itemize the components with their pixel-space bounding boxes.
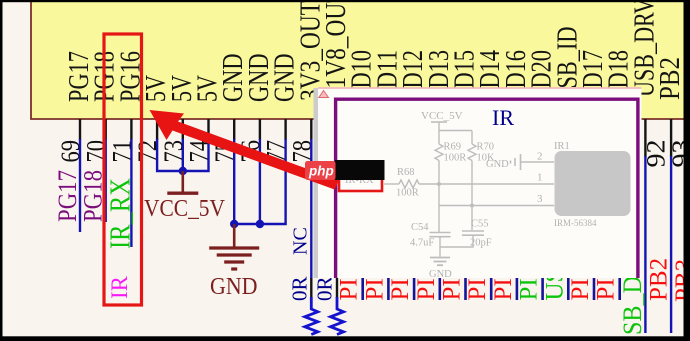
- svg-text:4.7uF: 4.7uF: [410, 238, 434, 249]
- wire net PB3: [670, 156, 672, 333]
- php watermark badge: [305, 161, 336, 180]
- svg-text:IR1: IR1: [554, 141, 570, 152]
- svg-text:1: 1: [537, 172, 543, 184]
- svg-text:R68: R68: [397, 167, 415, 178]
- svg-text:PB2: PB2: [654, 57, 686, 100]
- junction dot 5V: [179, 167, 187, 175]
- svg-text:2: 2: [537, 151, 543, 163]
- wire stub bottom col 15: [464, 200, 467, 300]
- connector block P1 (yellow body): [31, 0, 684, 119]
- resistor zigzag right: [331, 297, 344, 335]
- wire stub bottom col 11: [361, 200, 364, 300]
- svg-text:3: 3: [537, 193, 543, 205]
- svg-text:C54: C54: [411, 222, 429, 233]
- inset capacitor C55: [462, 230, 484, 232]
- wire stubs (black) pins 69-78: [79, 119, 81, 140]
- wire net PG18: [104, 139, 106, 222]
- inset wire VCC branch: [439, 131, 472, 145]
- wire stub bottom col 21: [618, 200, 621, 300]
- svg-text:70: 70: [82, 140, 111, 163]
- black censor box: [335, 160, 385, 180]
- svg-text:72: 72: [133, 140, 162, 163]
- svg-text:PB2: PB2: [645, 258, 672, 301]
- wire 5V bus joining pins 72,73,74: [157, 139, 208, 171]
- red highlight box PG16/IR column: [104, 34, 142, 305]
- wire stub bottom col 13: [413, 200, 416, 300]
- inset resistor R69: [435, 144, 443, 161]
- wire GND bus joining pins 75,76,77: [234, 139, 285, 224]
- wire net PG17: [79, 139, 81, 232]
- svg-text:C55: C55: [471, 219, 489, 230]
- svg-text:GND: GND: [210, 274, 258, 300]
- red highlight box on inset (IR-RX): [339, 177, 382, 192]
- corner triangle marker: [319, 91, 329, 98]
- inset cap bottoms join + GND: [440, 235, 473, 256]
- svg-text:R69: R69: [444, 142, 462, 153]
- svg-text:IR: IR: [492, 105, 514, 130]
- wire stub bottom col 12: [387, 200, 390, 300]
- wire stub bottom col 16: [490, 200, 493, 300]
- wire stub bottom col 14: [438, 200, 441, 300]
- svg-text:69: 69: [56, 140, 85, 163]
- junction dot GND 1: [230, 220, 238, 228]
- inset verticals below resistors: [438, 161, 440, 233]
- inset purple border: [336, 99, 638, 278]
- svg-text:GND: GND: [429, 269, 452, 280]
- svg-text:IR: IR: [107, 275, 132, 299]
- junction dot GND 2: [256, 220, 264, 228]
- inset screenshot card: [314, 88, 319, 278]
- inset resistor R68 + pin1 net: [384, 183, 399, 185]
- inset IC body IR1: [555, 151, 631, 216]
- inset pin3 net: [439, 205, 554, 207]
- wire stub bottom col 19: [567, 200, 570, 300]
- svg-text:NC: NC: [289, 227, 311, 255]
- svg-text:SB_D: SB_D: [618, 276, 647, 335]
- svg-text:GND: GND: [486, 159, 509, 170]
- svg-text:PG17: PG17: [53, 170, 82, 222]
- wire stubs (black) pins 92,93: [644, 119, 646, 157]
- wire stub bottom col 17: [516, 200, 519, 300]
- resistor zigzag left: [305, 297, 318, 335]
- svg-text:0R: 0R: [313, 276, 337, 301]
- svg-text:IRM-56384: IRM-56384: [554, 218, 597, 228]
- inset junction dots: [437, 182, 441, 186]
- resistor R? 0R (left, NC) pin segment: [310, 278, 312, 298]
- wire net IR_RX: [130, 139, 132, 247]
- svg-text:71: 71: [107, 140, 136, 163]
- wire stub bottom col 18: [541, 200, 544, 300]
- svg-text:R70: R70: [477, 142, 495, 153]
- svg-text:php: php: [308, 164, 334, 179]
- wire net PB2: [644, 156, 646, 333]
- svg-text:100R: 100R: [396, 188, 419, 199]
- svg-text:IR_RX: IR_RX: [104, 178, 136, 249]
- inset resistor R70: [468, 144, 476, 161]
- svg-text:0R: 0R: [287, 276, 311, 301]
- svg-text:VCC_5V: VCC_5V: [421, 110, 463, 122]
- wire 3V3_OUT net (pin 78) down: [310, 139, 312, 279]
- resistor R? 0R (right) pin segment: [336, 119, 338, 298]
- inset capacitor C54: [430, 232, 451, 234]
- svg-text:VCC_5V: VCC_5V: [144, 196, 226, 222]
- svg-text:73: 73: [159, 140, 188, 163]
- border frame: [0, 0, 690, 2]
- power symbol VCC_5V: [182, 171, 185, 192]
- wire stub bottom col 20: [593, 200, 596, 300]
- svg-text:100R: 100R: [444, 153, 467, 164]
- red arrow from inset to PG16 pin: [150, 110, 340, 190]
- ground symbol GND: [233, 224, 236, 247]
